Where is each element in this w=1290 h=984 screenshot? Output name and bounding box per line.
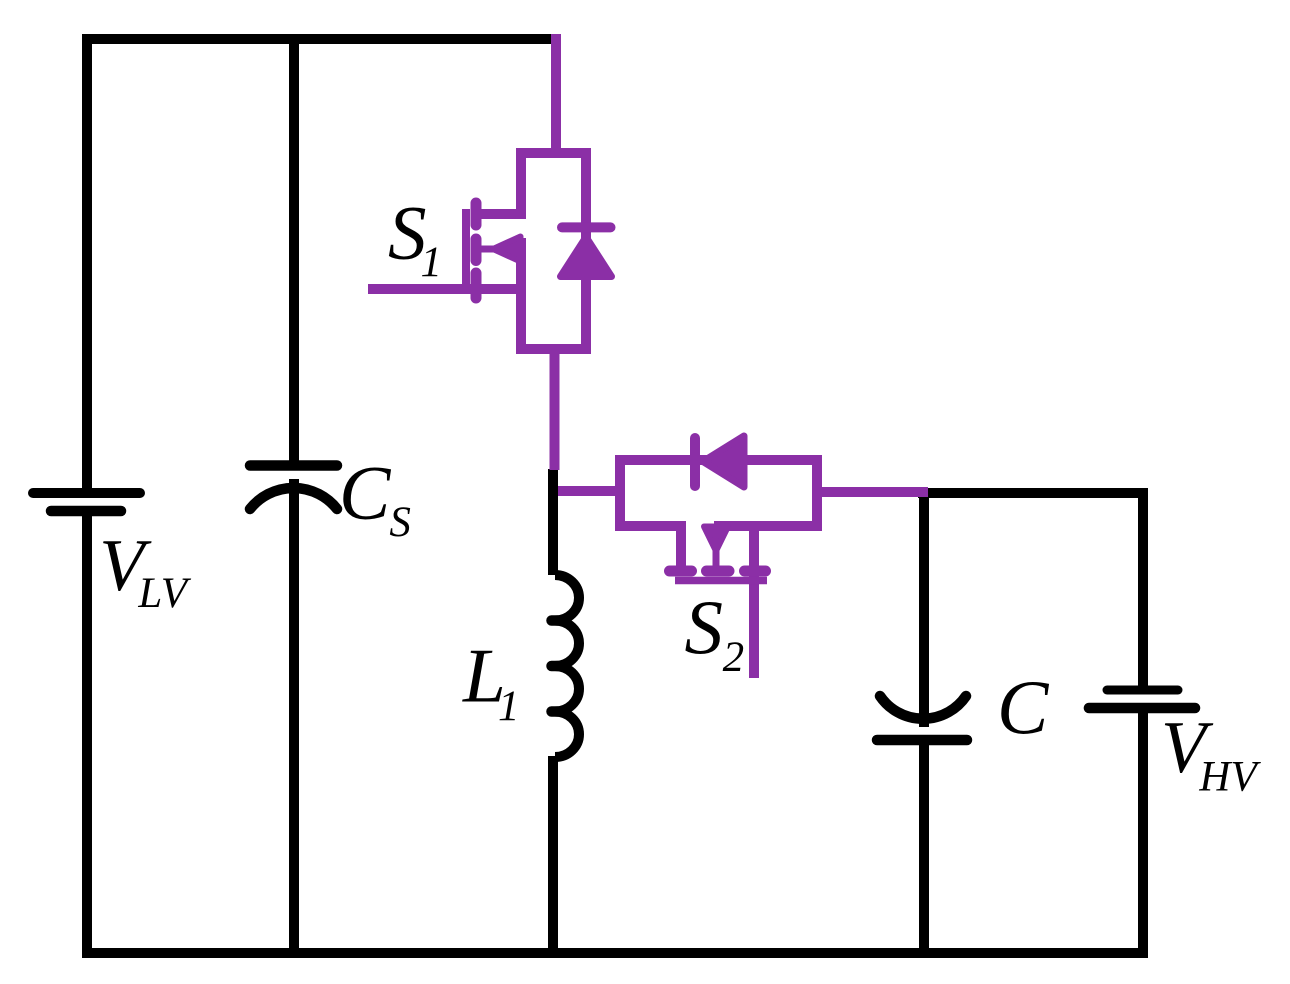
capacitor Cs straight plate xyxy=(250,460,337,471)
battery V_LV long plate xyxy=(33,488,140,498)
svg-text:S: S xyxy=(389,499,411,546)
inductor L1 xyxy=(555,575,579,757)
wire Cs branch lower xyxy=(289,479,299,953)
wire inductor to bottom rail xyxy=(548,756,558,953)
svg-text:C: C xyxy=(339,450,392,536)
capacitor Cs curved plate xyxy=(250,488,337,509)
wire left rail lower + bottom rail + V_HV branch lower xyxy=(87,511,1143,953)
mosfet S1 gate-source line xyxy=(368,284,521,294)
mosfet S1 body arrow xyxy=(493,237,521,262)
svg-text:HV: HV xyxy=(1198,754,1261,801)
wire Cs branch upper xyxy=(289,39,299,465)
wire C branch upper xyxy=(919,493,929,727)
mosfet S2 gate bar xyxy=(675,577,767,585)
mosfet S2 body arrow xyxy=(704,527,728,552)
wire C branch lower xyxy=(919,740,929,953)
mosfet S2 gate-source line xyxy=(749,526,759,678)
wire S1 drain stub xyxy=(551,34,561,155)
diode S2 triangle xyxy=(703,436,744,487)
battery V_HV long plate xyxy=(1089,703,1195,714)
inductor L1 junction cusps xyxy=(552,621,561,712)
wire node to S2 xyxy=(558,486,620,496)
mosfet S1 channel segments xyxy=(471,203,482,298)
mosfet S2 drain connector xyxy=(676,526,686,566)
wire top rail + left rail upper xyxy=(87,39,551,493)
wire right bus + C/V_HV top branch xyxy=(918,493,1143,690)
diode S1 cathode bar xyxy=(562,222,611,232)
wire S1 source to node xyxy=(550,349,560,470)
capacitor C curved plate xyxy=(880,696,966,719)
battery V_LV short plate xyxy=(51,506,121,517)
svg-text:LV: LV xyxy=(137,570,191,617)
svg-text:1: 1 xyxy=(421,239,443,286)
battery V_HV short plate xyxy=(1107,686,1178,695)
mosfet S2 channel segments xyxy=(670,566,766,577)
mosfet S2 body box xyxy=(620,460,817,526)
svg-text:2: 2 xyxy=(723,634,745,681)
mosfet S1 gate bar xyxy=(462,209,470,293)
svg-text:C: C xyxy=(997,665,1050,751)
wire node to inductor xyxy=(548,469,558,575)
svg-text:S: S xyxy=(685,584,724,670)
capacitor C straight plate xyxy=(877,735,967,746)
diode S2 cathode bar xyxy=(690,438,700,486)
mosfet S2 body line xyxy=(713,533,720,566)
diode S1 triangle xyxy=(561,237,612,277)
svg-text:1: 1 xyxy=(498,683,520,730)
mosfet S1 drain line xyxy=(475,209,521,219)
wire S2 to right bus xyxy=(817,487,928,497)
mosfet S1 body box xyxy=(521,153,586,349)
mosfet S1 body line xyxy=(477,246,516,253)
